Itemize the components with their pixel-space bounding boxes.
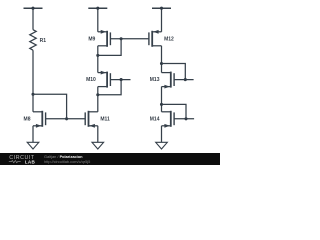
node junction M14 gate tee xyxy=(184,117,187,120)
transistor M8 xyxy=(33,111,46,128)
transistor M13 xyxy=(162,72,175,89)
wire M8 gate xyxy=(46,118,86,120)
node junction M14 drain xyxy=(160,103,163,106)
node junction M9 gate tee xyxy=(120,37,123,40)
transistor M9 xyxy=(98,30,111,47)
svg-text:LAB: LAB xyxy=(25,159,36,164)
node junction M13 gate tee xyxy=(184,78,187,81)
svg-text:M14: M14 xyxy=(150,116,160,122)
svg-text:M10: M10 xyxy=(86,77,96,83)
wire M10 gate stub xyxy=(110,79,130,81)
watermark bar xyxy=(0,153,220,165)
CircuitLab logo zigzag xyxy=(9,161,21,163)
wire M8 source to ground xyxy=(32,126,34,143)
transistor M12 (mirrored) xyxy=(149,30,162,47)
wire M14 gate stub xyxy=(174,118,194,120)
wire M13 gate stub xyxy=(174,79,194,81)
svg-text:M11: M11 xyxy=(100,116,110,122)
node junction gate tee M8/M11 xyxy=(65,117,68,120)
node junction on left rail xyxy=(31,7,34,10)
power rail bar middle xyxy=(88,7,107,9)
wire node A to gate tee xyxy=(33,94,67,119)
resistor R1 xyxy=(30,30,36,51)
svg-text:M13: M13 xyxy=(150,77,160,83)
svg-text:M9: M9 xyxy=(88,36,95,42)
wire M10 gate-source loop xyxy=(98,80,121,95)
wire rail to M9 source xyxy=(97,8,99,32)
wire rail to M12 source xyxy=(161,8,163,32)
node junction M12 drain xyxy=(160,62,163,65)
power rail bar right xyxy=(152,7,171,9)
node A junction dot xyxy=(31,93,34,96)
node junction M10 source xyxy=(96,93,99,96)
svg-text:http://circuitlab.com/c/qr5j5: http://circuitlab.com/c/qr5j5 xyxy=(44,159,90,164)
transistor M11 (mirrored) xyxy=(85,111,98,128)
transistor M14 xyxy=(162,111,175,128)
wire M10 source to M11 drain xyxy=(97,87,99,112)
power rail bar left xyxy=(24,7,43,9)
wire M14 source to ground xyxy=(161,126,163,143)
wire M11 source to ground xyxy=(97,126,99,143)
node junction on right rail xyxy=(160,7,163,10)
wire M13 source to M14 drain xyxy=(161,87,163,112)
ground M8 xyxy=(27,142,39,149)
svg-text:M12: M12 xyxy=(164,36,174,42)
node junction on middle rail xyxy=(96,7,99,10)
node junction M9 drain xyxy=(96,54,99,57)
node junction M10 gate tee xyxy=(120,78,123,81)
svg-text:R1: R1 xyxy=(40,38,47,44)
wire M12 drain to M13 xyxy=(161,46,163,73)
ground M14 xyxy=(156,142,168,149)
wire M12 drain to M13 gate xyxy=(162,64,186,80)
wire M9 drain to M10 xyxy=(97,46,99,73)
wire node A to M8 drain xyxy=(32,94,34,112)
svg-text:M8: M8 xyxy=(24,116,31,122)
wire M9 gate-drain loop xyxy=(98,39,121,56)
wire rail to R1 top xyxy=(32,8,34,30)
wire M9 gate to M12 gate xyxy=(110,38,148,40)
ground M11 xyxy=(92,142,104,149)
wire M14 gate-drain loop xyxy=(162,104,187,118)
transistor M10 xyxy=(98,71,111,88)
wire R1 bottom to node A xyxy=(32,50,34,94)
